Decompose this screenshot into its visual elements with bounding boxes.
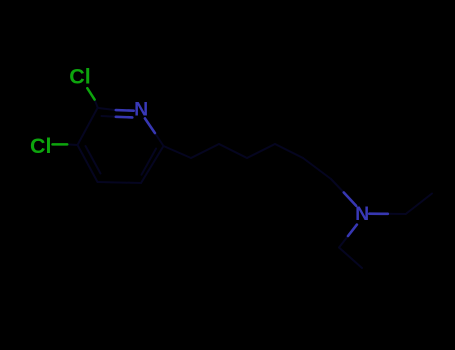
bond C2=N main dark half — [98, 108, 116, 110]
bond N2-CH2 right dark half — [388, 213, 406, 215]
bond Cl-C3 dark half — [67, 143, 77, 146]
bond CH2-CH3 lower ethyl — [339, 248, 362, 269]
bond Cl-C3 green half — [53, 143, 68, 146]
chain bond Cc-Cd — [247, 144, 275, 158]
wire: dark carbon skeleton (near-invisible navy) — [67, 100, 432, 268]
blue bond halves near N atoms — [116, 110, 388, 236]
bond C2=N inner dark half — [102, 115, 116, 118]
ring bond C5-C6 main — [141, 146, 164, 183]
bond C2=N main blue half — [116, 109, 134, 112]
chain bond Cf-N2 dark half — [331, 179, 344, 193]
chain bond Ce-Cf — [303, 158, 331, 179]
bond C2=N inner blue half — [116, 116, 133, 119]
ring bond C4-C5 — [98, 182, 142, 183]
ring bond C2-C3 — [78, 108, 98, 145]
ring bond C3-C4 inner — [86, 146, 101, 174]
bond N1-C6 blue half — [145, 118, 155, 133]
svg-text:N: N — [355, 203, 369, 225]
bond CH2-CH3 right ethyl — [406, 194, 432, 215]
bond N2-CH2 right blue half — [369, 212, 388, 215]
chain bond Cb-Cc — [219, 144, 247, 158]
chain bond C6-Ca — [164, 146, 192, 158]
ring bond C5-C6 inner — [142, 149, 157, 175]
chain bond Cd-Ce — [275, 144, 303, 158]
bond N2-CH2 lower blue half — [348, 225, 357, 236]
chain bond Ca-Cb — [191, 144, 219, 158]
bond Cl-C2 dark half — [95, 100, 98, 108]
svg-text:Cl: Cl — [69, 64, 91, 88]
bond N2-CH2 lower dark half — [339, 236, 348, 248]
bond N1-C6 dark half — [155, 133, 164, 146]
ring bond C3-C4 main — [78, 145, 98, 182]
green bond halves near Cl atoms — [53, 88, 95, 144]
bond Cl-C2 green half — [87, 88, 94, 99]
svg-text:N: N — [134, 99, 148, 121]
bond Cf-N2 blue half — [344, 193, 356, 206]
svg-text:Cl: Cl — [30, 134, 52, 158]
